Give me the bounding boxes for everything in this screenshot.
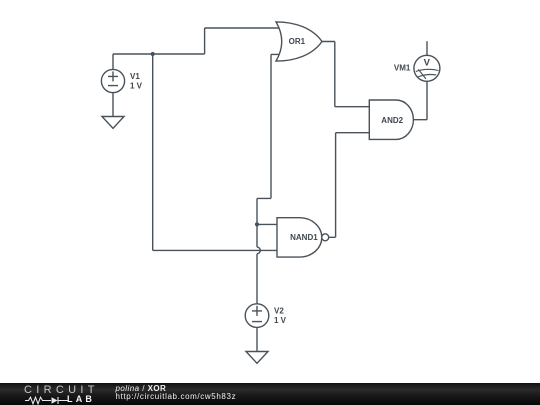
svg-text:NAND1: NAND1	[290, 233, 318, 242]
svg-text:1 V: 1 V	[130, 82, 143, 91]
svg-text:VM1: VM1	[394, 63, 411, 72]
svg-text:V2: V2	[274, 307, 284, 316]
svg-text:AND2: AND2	[381, 116, 403, 125]
svg-text:OR1: OR1	[289, 37, 306, 46]
svg-text:V1: V1	[130, 72, 140, 81]
svg-text:V: V	[424, 57, 431, 68]
svg-text:1 V: 1 V	[274, 316, 287, 325]
